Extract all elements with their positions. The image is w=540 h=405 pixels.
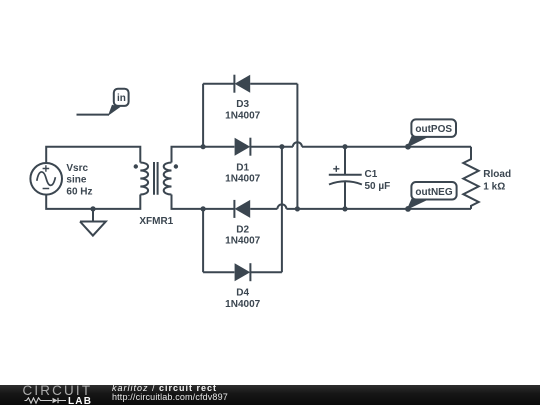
node outPOS anchor [405,144,411,150]
flag stem outNEG [407,199,431,210]
diode D2 [234,200,250,218]
svg-text:1N4007: 1N4007 [225,173,260,184]
wire D1 row [203,146,471,148]
wire secondary bottom [172,195,204,209]
transformer XFMR1 [134,162,178,195]
svg-text:in: in [117,93,126,104]
svg-text:1 kΩ: 1 kΩ [483,182,505,193]
svg-text:outNEG: outNEG [415,187,452,198]
svg-text:sine: sine [66,175,86,186]
svg-text:1N4007: 1N4007 [225,110,260,121]
wire source top rail [46,147,140,163]
svg-text:50 µF: 50 µF [365,181,391,192]
svg-text:1N4007: 1N4007 [225,236,260,247]
svg-text:60 Hz: 60 Hz [66,187,92,198]
footer url line [112,392,228,402]
node outNEG anchor [405,206,411,212]
flag stem outPOS [407,136,431,148]
flag in [114,89,129,106]
ground [80,209,106,236]
diode D4 [235,263,251,281]
wire in-net [77,114,110,116]
wire D2 row [203,208,471,210]
wire hop D2 over railB [277,204,286,209]
logo resistor-diode line + LAB [24,397,68,405]
svg-text:Rload: Rload [483,169,511,180]
diode D1 [235,138,251,156]
footer author line [112,383,217,393]
svg-text:D3: D3 [236,99,249,110]
wire D3 row [203,83,297,85]
wire left rail upper [202,84,204,147]
svg-text:XFMR1: XFMR1 [139,216,173,227]
wire right rail B D1-D4 [281,147,283,273]
node ground junction [90,206,95,211]
svg-text:outPOS: outPOS [415,124,452,135]
label D3 [225,99,260,121]
capacitor C1 [329,147,362,209]
label D1 [225,162,260,184]
node bridge junctions [201,144,301,211]
svg-text:C1: C1 [365,169,378,180]
label Rload value [483,169,511,193]
node C1 bottom [342,206,347,211]
flag stem in [108,105,121,116]
footer bar [0,385,540,405]
logo CIRCUIT [23,383,93,398]
wire right rail A D3-D2 [296,84,298,209]
wire source bottom rail [46,195,140,209]
wire hop D1 over railA [293,142,302,147]
svg-text:D1: D1 [236,162,249,173]
node C1 top [342,144,347,149]
wire D4 row [203,271,282,273]
svg-text:D4: D4 [236,288,249,299]
label D2 [225,224,260,246]
svg-text:D2: D2 [236,224,249,235]
wire secondary top [172,147,204,163]
voltage source V1 Vsrc [30,163,62,195]
flag outNEG [411,182,456,200]
diode D3 [234,75,250,93]
label Vsrc value [66,163,92,198]
flag outPOS [411,119,456,136]
resistor Rload [463,147,478,209]
wire left rail lower [202,209,204,272]
svg-text:Vsrc: Vsrc [66,163,88,174]
label D4 [225,288,260,310]
svg-text:1N4007: 1N4007 [225,299,260,310]
label XFMR1 [139,216,173,227]
label C1 value [365,169,391,192]
